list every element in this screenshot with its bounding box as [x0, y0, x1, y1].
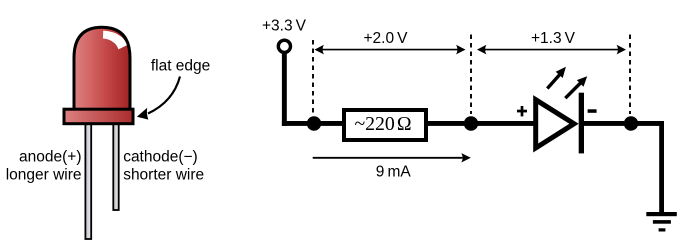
- svg-text:9 mA: 9 mA: [376, 163, 412, 180]
- svg-text:~220Ω: ~220Ω: [354, 113, 411, 135]
- svg-text:shorter wire: shorter wire: [123, 167, 204, 184]
- svg-text:anode(+): anode(+): [19, 149, 81, 166]
- svg-text:+1.3 V: +1.3 V: [531, 30, 576, 47]
- svg-text:cathode(−): cathode(−): [123, 149, 198, 166]
- svg-text:flat edge: flat edge: [151, 58, 210, 75]
- svg-text:+3.3 V: +3.3 V: [262, 18, 307, 35]
- svg-text:+2.0 V: +2.0 V: [363, 30, 408, 47]
- svg-text:longer wire: longer wire: [6, 167, 82, 184]
